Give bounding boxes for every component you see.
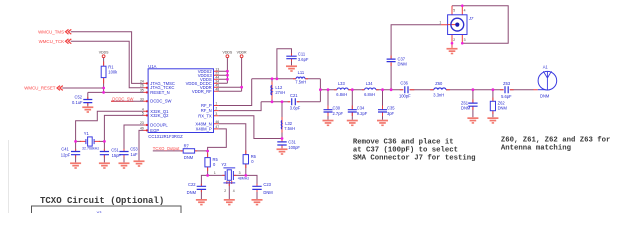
IC U1A body	[148, 69, 213, 133]
svg-text:1uF: 1uF	[131, 152, 139, 157]
wire TCXO_Output net	[153, 150, 208, 152]
wire RF_N riser	[218, 102, 261, 111]
junction VDDS pin44	[226, 78, 229, 81]
junction R7/X48M_P	[206, 150, 209, 153]
junction C34 tap	[351, 88, 354, 91]
svg-text:Y3: Y3	[97, 211, 103, 214]
svg-text:3: 3	[464, 38, 466, 42]
crystal Y1	[86, 139, 94, 144]
ground under Z61	[467, 117, 478, 123]
wire rail3	[320, 89, 533, 91]
wire X48M_N to R6	[218, 124, 246, 155]
resistor R5	[205, 158, 210, 167]
ground under Y2	[224, 199, 235, 205]
svg-text:WMCU_RESET: WMCU_RESET	[24, 86, 56, 91]
wire L12 stubs	[271, 79, 273, 102]
svg-text:1: 1	[439, 21, 441, 25]
svg-text:C52: C52	[74, 95, 82, 100]
svg-text:5: 5	[142, 112, 144, 116]
power symbol VDDS at R1	[102, 55, 105, 58]
wire mid riser	[319, 79, 321, 102]
wire DCDC_SW net	[111, 100, 144, 102]
wire Z61 drop	[472, 90, 474, 118]
wire WMCU_TMS to pin 24	[71, 32, 144, 84]
junction Y1 right node	[103, 140, 106, 143]
wire R5 bottom	[207, 167, 209, 176]
capacitor C30	[324, 110, 333, 112]
IC left pin names	[150, 81, 175, 133]
wire X32K_Q2 to Y1 right	[104, 115, 143, 141]
inductor L33	[337, 88, 348, 90]
wire C35 drop	[382, 90, 384, 120]
svg-text:Y1: Y1	[84, 131, 90, 136]
junction mid riser/rail3	[319, 88, 322, 91]
svg-text:27nH: 27nH	[275, 90, 285, 95]
wire rail1	[252, 78, 321, 80]
svg-text:VDDR: VDDR	[237, 51, 247, 55]
svg-text:C34: C34	[357, 106, 365, 111]
svg-text:48: 48	[215, 87, 219, 91]
ground under C31	[277, 148, 288, 154]
svg-text:15pF: 15pF	[112, 153, 122, 158]
capacitor C11	[286, 56, 296, 59]
capacitor C41	[71, 152, 80, 155]
svg-text:46: 46	[215, 120, 219, 124]
wire RF_P riser	[218, 79, 251, 106]
junction C35 tap	[381, 88, 384, 91]
svg-text:C21: C21	[290, 93, 298, 98]
svg-text:L33: L33	[338, 81, 346, 86]
svg-text:4: 4	[464, 8, 466, 12]
svg-text:X48M_P: X48M_P	[196, 127, 212, 132]
wire C51 drop	[103, 141, 105, 162]
wire RX_TX to C31 node	[218, 116, 282, 139]
svg-text:100k: 100k	[108, 70, 118, 75]
svg-text:47: 47	[215, 125, 219, 129]
component terminal stubs	[103, 62, 105, 84]
junction RESET_N/R1	[102, 91, 105, 94]
IC right pin names	[186, 69, 213, 132]
svg-text:100pF: 100pF	[399, 94, 411, 99]
svg-text:Z60, Z61, Z62 and Z63 for: Z60, Z61, Z62 and Z63 for	[501, 137, 610, 145]
svg-text:X32K_Q2: X32K_Q2	[150, 113, 169, 118]
power symbol VDDR at bus	[240, 55, 243, 58]
capacitor C21 (series)	[292, 98, 296, 105]
svg-text:Z63: Z63	[503, 81, 511, 86]
junction C37 tap	[390, 88, 393, 91]
capacitor C31	[277, 142, 286, 145]
component reference/value labels	[61, 16, 550, 216]
svg-text:TCXO Circuit (Optional): TCXO Circuit (Optional)	[40, 196, 164, 206]
resistor R7	[183, 149, 194, 153]
svg-text:6.8nH: 6.8nH	[364, 92, 375, 97]
wire WMCU_RESET net	[62, 88, 143, 92]
wire Y1 right terminal	[99, 140, 104, 142]
ground under C34	[347, 120, 358, 126]
ground under C11	[286, 65, 297, 71]
svg-text:3pF: 3pF	[387, 111, 395, 116]
IC left pin numbers	[140, 79, 144, 130]
svg-text:DCDC_SW: DCDC_SW	[112, 96, 133, 101]
ground at EGP	[134, 160, 145, 166]
capacitor C34	[348, 110, 357, 112]
svg-text:0.1uF: 0.1uF	[72, 100, 83, 105]
SMA connector J7	[448, 6, 467, 48]
svg-text:32.768kHz: 32.768kHz	[82, 147, 99, 151]
svg-text:49: 49	[140, 127, 144, 131]
capacitor C52	[83, 100, 92, 103]
inductor L34	[365, 88, 376, 90]
ground under Z62	[487, 117, 498, 123]
svg-text:2: 2	[215, 107, 217, 111]
svg-text:SMA Connector J7 for testing: SMA Connector J7 for testing	[353, 154, 476, 162]
wire C37 riser and J7 feed	[391, 25, 441, 90]
svg-text:at C37 (100pF) to select: at C37 (100pF) to select	[353, 146, 458, 154]
power symbol VDDS at bus	[226, 55, 229, 58]
TCXO optional box	[32, 206, 182, 216]
svg-text:C35: C35	[387, 106, 395, 111]
offpage WMCU_TMS	[66, 29, 72, 34]
resistor R1	[101, 66, 106, 77]
svg-text:Remove C36 and place it: Remove C36 and place it	[353, 138, 454, 146]
junction Z62 tap	[492, 88, 495, 91]
svg-text:A1: A1	[543, 65, 549, 70]
junction J7 pin3	[461, 42, 464, 45]
wire C52 bottom to ground	[87, 103, 89, 107]
ground under C35	[377, 120, 388, 126]
svg-text:1: 1	[214, 171, 216, 175]
IC right pin numbers	[215, 67, 219, 129]
crystal Y2	[225, 171, 233, 180]
wire C23 branch	[246, 175, 257, 199]
inductor L11	[296, 77, 305, 79]
svg-text:C22: C22	[188, 182, 196, 187]
wire L32 stubs	[281, 102, 283, 139]
resistor Z62	[490, 101, 495, 110]
wire VDDS to R1 top	[103, 58, 105, 67]
svg-text:DNM: DNM	[398, 62, 408, 67]
svg-text:26: 26	[140, 84, 144, 88]
junction Y1 left node	[74, 140, 77, 143]
junction VDDR pin45	[240, 86, 243, 89]
wire rail2	[261, 101, 320, 103]
junction L12 top	[271, 77, 274, 80]
svg-text:Antenna matching: Antenna matching	[501, 145, 571, 153]
svg-text:L11: L11	[298, 70, 305, 75]
svg-text:23: 23	[140, 121, 144, 125]
svg-text:Y2: Y2	[221, 162, 227, 167]
svg-text:C41: C41	[61, 146, 69, 151]
offpage WMCU_TCK	[66, 39, 72, 44]
wire R6 bottom	[245, 164, 247, 176]
resistor R6	[243, 155, 248, 164]
svg-text:C11: C11	[298, 52, 306, 57]
svg-text:C51: C51	[111, 147, 119, 152]
ground under C23	[252, 199, 263, 205]
pin-edge red dots left	[146, 82, 148, 131]
svg-text:C36: C36	[400, 81, 408, 86]
svg-text:2.7pF: 2.7pF	[333, 111, 344, 116]
svg-text:TCXO_Output: TCXO_Output	[153, 146, 180, 151]
svg-text:3.6pF: 3.6pF	[290, 106, 301, 111]
wire J7 loop	[452, 6, 508, 44]
svg-text:35: 35	[140, 88, 144, 92]
ground under C52	[82, 106, 93, 112]
svg-text:CC1312R1F3RGZ: CC1312R1F3RGZ	[148, 134, 183, 139]
svg-text:DNM: DNM	[540, 93, 550, 98]
wire VDDR bus	[218, 58, 241, 92]
svg-text:C23: C23	[263, 182, 271, 187]
svg-text:DNM: DNM	[461, 106, 471, 111]
svg-text:3: 3	[239, 171, 241, 175]
capacitor C53	[119, 152, 128, 155]
svg-text:C31: C31	[288, 140, 296, 145]
capacitor Z63 (series)	[505, 86, 508, 93]
svg-text:VDDS: VDDS	[99, 51, 109, 55]
svg-text:3.3nH: 3.3nH	[433, 93, 444, 98]
Y2 pin numbers	[214, 171, 241, 193]
svg-text:WMCU_TCK: WMCU_TCK	[39, 39, 64, 44]
junction VDDS pin22	[226, 74, 229, 77]
svg-text:J7: J7	[468, 16, 474, 21]
svg-text:48MHz: 48MHz	[238, 177, 250, 181]
svg-text:U1A: U1A	[148, 64, 156, 69]
wire C30 drop	[327, 90, 329, 120]
svg-text:33: 33	[140, 97, 144, 101]
wire C22 branch	[201, 175, 207, 199]
wire Z62 drop	[492, 90, 494, 118]
svg-text:WMCU_TMS: WMCU_TMS	[38, 29, 64, 34]
junction J7 pin2	[451, 42, 454, 45]
svg-text:7.5nH: 7.5nH	[284, 126, 295, 131]
wire Y1 left terminal	[76, 140, 81, 142]
svg-text:Z60: Z60	[435, 81, 443, 86]
svg-text:EGP: EGP	[150, 128, 159, 133]
svg-text:3: 3	[215, 112, 217, 116]
junction C30 tap	[327, 88, 330, 91]
svg-text:DNM: DNM	[184, 155, 194, 160]
junction Y2 pin1 node	[206, 174, 209, 177]
wire C41 drop	[75, 141, 77, 162]
svg-text:9.2pF: 9.2pF	[357, 111, 368, 116]
capacitor C22	[197, 186, 206, 189]
svg-text:DCOUPL: DCOUPL	[150, 123, 168, 128]
wire C11 stalk	[277, 49, 292, 79]
wire DCOUPL to C53	[124, 125, 144, 162]
wire C31 drop	[281, 139, 283, 149]
junction C11 branch	[276, 77, 279, 80]
wire Y2 bottom to ground	[228, 181, 230, 199]
ground under C51	[99, 162, 110, 168]
ground under C53	[119, 162, 130, 168]
capacitor C37	[387, 59, 396, 62]
IC pin stubs red	[76, 25, 538, 192]
capacitor Z61	[468, 103, 477, 106]
svg-text:6.8nH: 6.8nH	[336, 92, 347, 97]
wire VDDS bus	[218, 58, 227, 84]
svg-text:DNM: DNM	[498, 106, 508, 111]
junction L12 bottom	[271, 100, 274, 103]
svg-text:C30: C30	[333, 106, 341, 111]
junction Z61 tap	[472, 88, 475, 91]
wire C52 top	[87, 92, 89, 99]
wire X32K_Q1 to Y1 left	[76, 111, 144, 141]
junction Y2 pin3 node	[244, 174, 247, 177]
svg-text:DCDC_SW: DCDC_SW	[150, 99, 171, 104]
capacitor C35	[378, 110, 387, 112]
ground under C22	[196, 199, 207, 205]
junction VDDS pin13	[226, 70, 229, 73]
svg-text:7.5nH: 7.5nH	[295, 79, 306, 84]
svg-text:RESET_N: RESET_N	[150, 90, 169, 95]
wire X48M_P to R5	[208, 129, 227, 157]
svg-text:2: 2	[224, 189, 226, 193]
J7 pin numbers	[439, 8, 465, 42]
ground under J7 pin2	[447, 48, 458, 54]
svg-text:DNM: DNM	[187, 190, 197, 195]
junction J7 pin4	[461, 4, 464, 7]
wire C34 drop	[351, 90, 353, 120]
svg-text:2: 2	[453, 38, 455, 42]
antenna A1	[538, 71, 557, 90]
ground under C41	[70, 162, 81, 168]
svg-text:VDDR_RF: VDDR_RF	[192, 89, 212, 94]
capacitor C36 (series)	[405, 86, 408, 93]
svg-text:12pF: 12pF	[61, 152, 71, 157]
junction L32/C31/RX_TX	[281, 137, 284, 140]
svg-text:1: 1	[215, 102, 217, 106]
svg-text:5.6pF: 5.6pF	[501, 94, 512, 99]
inductor L12	[271, 85, 272, 95]
svg-text:DNM: DNM	[263, 190, 273, 195]
inductor L32	[280, 120, 283, 129]
offpage WMCU_RESET	[57, 86, 63, 91]
junction RESET label/R1	[102, 87, 105, 90]
wire R1 bottom to reset net	[103, 78, 105, 93]
svg-text:C37: C37	[398, 56, 406, 61]
inductor Z60	[434, 88, 446, 90]
svg-text:RX_TX: RX_TX	[198, 113, 212, 118]
junction L32 top	[281, 100, 284, 103]
svg-text:VDDS: VDDS	[223, 51, 233, 55]
svg-text:3.6pF: 3.6pF	[298, 57, 309, 62]
ground under C30	[323, 120, 334, 126]
capacitor C51	[100, 152, 109, 155]
svg-text:C53: C53	[130, 147, 138, 152]
svg-text:100pF: 100pF	[288, 145, 300, 150]
svg-text:L34: L34	[366, 81, 374, 86]
svg-text:R7: R7	[184, 143, 190, 148]
page frame line	[8, 140, 10, 213]
capacitor C23	[252, 186, 261, 189]
wire WMCU_TCK to pin 26	[71, 41, 144, 87]
svg-text:5: 5	[453, 8, 455, 12]
wire Y2 row	[208, 174, 246, 176]
wire EGP to ground	[139, 130, 144, 160]
svg-text:4: 4	[233, 189, 235, 193]
